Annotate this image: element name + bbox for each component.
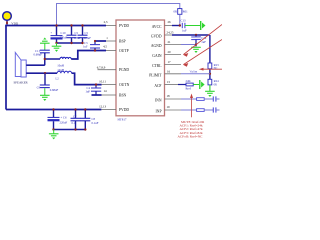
svg-text:19: 19 [166,105,170,109]
svg-text:C5: C5 [75,31,79,35]
pin CTRL 17 [152,60,181,68]
svg-text:HT817: HT817 [118,118,127,122]
svg-text:GVDD: GVDD [151,34,162,38]
wire speaker plus to L1 [45,59,60,65]
pin INN 18 [155,94,181,102]
svg-text:0R: 0R [214,83,217,86]
wire INN to cap [204,98,213,100]
wire Rref to ground [193,84,199,86]
op-amp U1 HT817 class-D amplifier box [116,20,165,116]
svg-text:21: 21 [167,40,171,44]
capacitor C6 220uF [48,110,68,130]
svg-text:ACF: ACF [154,84,161,88]
svg-text:Rref: Rref [186,87,191,91]
svg-text:BSP: BSP [119,39,126,43]
node bottom tie junction [52,128,54,130]
capacitor C5 0.1uF [67,26,82,44]
ground R24 [205,91,215,97]
wire GVDD branch down to divider [209,35,211,63]
node junction dots top rail [55,24,57,26]
speaker SPEAKER [14,53,29,85]
svg-text:INP: INP [156,109,162,113]
capacitor C13 1uF [181,19,201,33]
wire speaker plus [26,64,45,66]
svg-text:C3: C3 [84,41,88,45]
svg-text:0.1uF: 0.1uF [84,36,91,40]
resistor R01 0R [173,9,188,15]
annotation arrow CTRL [183,40,222,67]
svg-text:1uF: 1uF [83,46,88,49]
ground top cap group [52,43,62,52]
svg-text:PLIMIT: PLIMIT [149,73,162,77]
svg-text:BSN: BSN [119,93,127,97]
pin PVDD 12,13 [99,105,129,112]
pin INP 19 [156,105,181,113]
wire VDD top rail [5,25,106,27]
svg-text:0R: 0R [173,10,177,14]
node bottom rail junctions [52,108,54,110]
svg-text:0.1uF: 0.1uF [92,121,99,125]
svg-text:1uF: 1uF [182,28,187,32]
pin OUTN 10,11 [99,80,130,87]
node OUTP bootstrap [94,49,96,51]
inductor L1 10uH [57,56,71,67]
inductor L2 10uH [56,68,72,81]
resistor Rref 24K [186,79,194,90]
capacitor C3 0.1uF [78,26,92,44]
svg-text:16: 16 [167,70,171,74]
svg-text:0.1: 0.1 [72,121,76,125]
wire left rail [5,26,7,110]
svg-text:0.68uF: 0.68uF [34,53,43,57]
resistor INP input [197,109,205,112]
svg-text:OUTP: OUTP [119,49,129,53]
node speaker minus [44,72,46,74]
svg-text:220uF: 220uF [60,36,68,40]
capacitor INN input [213,96,219,101]
pin BSP 1 [106,36,126,43]
pin PLIMIT 16 [149,70,181,78]
node speaker plus [44,58,46,60]
svg-text:PVDD: PVDD [119,108,129,112]
power port VDD [3,12,19,26]
pin GAIN 20 [152,50,181,58]
svg-text:NC: NC [214,67,218,70]
svg-text:15: 15 [167,80,171,84]
svg-text:10uH: 10uH [57,63,64,67]
wire INN net [181,98,197,100]
annotation arrow Vplim [199,68,222,71]
note Rref table [178,120,206,139]
wire BSP [95,40,106,42]
ground C13 right [201,21,206,30]
ground C9 [40,88,50,101]
svg-text:INN: INN [155,98,162,102]
resistor R23 NC [208,63,219,70]
wire AGND to ground node [181,44,196,46]
resistor INN input [197,98,205,101]
svg-text:C8: C8 [92,117,96,121]
svg-text:AGND: AGND [151,44,162,48]
wire R01 to AVCC node [179,14,181,25]
wire INP to cap [204,109,213,111]
svg-text:OUTN: OUTN [119,83,130,87]
capacitor C8 0.1uF [80,110,98,130]
wire divider mid [209,69,211,80]
wire bottom cap tie [54,129,86,131]
pin BSN 14 [102,89,127,97]
ground up C11 [40,38,50,51]
wire speaker minus [26,72,57,74]
pin AVCC 26 [152,20,172,29]
wire PLIMIT Vplim [181,73,210,75]
svg-text:20: 20 [167,50,171,54]
svg-text:AVCC: AVCC [152,25,162,29]
capacitor C11 0.68uF [34,49,50,65]
wire bottom rail [6,109,101,111]
pin ACF 15 [154,80,178,88]
svg-text:14: 14 [103,89,107,93]
pin AGND 21 [151,40,181,48]
svg-text:SPEAKER: SPEAKER [14,80,29,84]
wire ACF to Rref [178,84,186,86]
capacitor C7 0.1uF [71,110,81,130]
wire BSN [92,94,102,96]
capacitor C14 1uF [191,35,207,46]
svg-text:+ C6: + C6 [61,115,67,119]
ground C14 [191,47,201,53]
svg-text:C13: C13 [181,19,187,23]
wire L2 to OUTN [72,73,102,84]
svg-text:ACFoff: Rref=NC: ACFoff: Rref=NC [178,135,204,139]
svg-text:24K: 24K [186,79,192,83]
svg-text:Vplim: Vplim [190,69,198,73]
wire R24 to ground [209,85,211,91]
pin GVDD 24,25 [151,31,174,39]
wire top net to R01 [57,4,180,26]
resistor R24 0R [208,79,219,86]
svg-text:C5: C5 [85,31,89,35]
pin PGND 6,7,8,9 [97,65,130,72]
capacitor C4 1uF bootstrap [85,85,101,95]
ground Rref right [200,80,205,89]
annotation arrow GAIN [183,25,222,57]
svg-text:C10: C10 [61,31,67,35]
capacitor C9 0.68uF [37,73,59,92]
svg-text:18: 18 [166,94,170,98]
pin OUTP 4,5 [103,45,129,53]
capacitor C10 220uF [51,26,68,44]
svg-text:1uF: 1uF [85,90,90,94]
svg-text:C9: C9 [37,86,41,90]
node top tie junction [55,42,57,44]
wire cap group tie [57,42,83,44]
svg-text:R01: R01 [183,10,189,14]
wire AVCC node [172,25,181,27]
wire L1 to OUTP [71,51,106,60]
annotation arrow Rref [190,94,193,118]
wire GVDD [172,34,209,36]
svg-text:PVDD: PVDD [119,24,129,28]
svg-text:0.68uF: 0.68uF [50,88,59,92]
pin PVDD 2,3 [104,20,130,28]
capacitor bootstrap C3 BSP [83,41,100,51]
wire INP net [181,109,197,111]
svg-text:17: 17 [167,60,171,64]
svg-text:26: 26 [167,20,171,24]
svg-text:GAIN: GAIN [152,54,162,58]
capacitor INP input [213,107,219,112]
svg-text:PGND: PGND [119,68,129,72]
svg-text:220uF: 220uF [60,121,68,125]
node OUTN junction [95,83,97,85]
svg-text:10uH: 10uH [57,68,64,72]
svg-text:CTRL: CTRL [152,64,162,68]
svg-text:C7: C7 [73,114,77,118]
